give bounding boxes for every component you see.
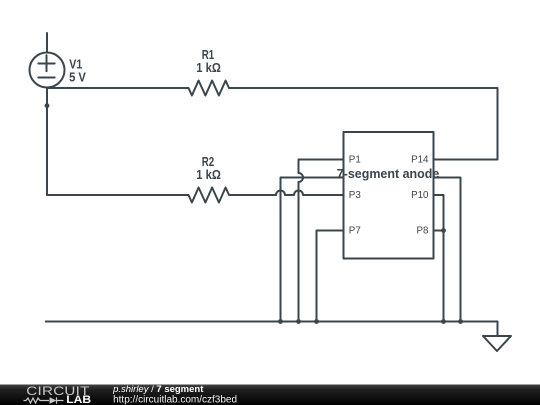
svg-text:LAB: LAB: [66, 394, 91, 405]
svg-text:http://circuitlab.com/czf3bed: http://circuitlab.com/czf3bed: [113, 394, 237, 405]
svg-text:P14: P14: [411, 154, 429, 165]
svg-text:1 kΩ: 1 kΩ: [196, 61, 221, 75]
svg-text:P1: P1: [349, 154, 361, 165]
svg-text:1 kΩ: 1 kΩ: [196, 168, 221, 182]
svg-text:5 V: 5 V: [69, 70, 86, 84]
svg-text:7-segment anode: 7-segment anode: [337, 167, 440, 181]
svg-text:P3: P3: [349, 190, 362, 201]
svg-text:P10: P10: [411, 190, 429, 201]
svg-text:P8: P8: [417, 225, 430, 236]
svg-text:P7: P7: [349, 225, 361, 236]
